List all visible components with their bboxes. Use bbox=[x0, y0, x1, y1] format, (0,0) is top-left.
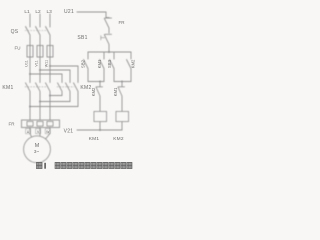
contact KM1 auxiliary NO self-latch bbox=[100, 52, 105, 82]
switch QS linkage dashed bbox=[25, 30, 46, 32]
node tap U11 bbox=[29, 73, 31, 75]
svg-text:W11: W11 bbox=[44, 60, 48, 68]
switch QS pole 3 bbox=[46, 27, 51, 46]
contact KM1 NC interlock bbox=[118, 82, 125, 112]
wire coil KM1 to bottom rail bbox=[99, 122, 101, 131]
svg-text:3~: 3~ bbox=[34, 149, 40, 154]
node tap V11 bbox=[39, 69, 41, 71]
wire merge left branch bbox=[88, 81, 104, 83]
terminal box V1 bbox=[36, 129, 41, 134]
contactor KM2 main contact 1 bbox=[58, 83, 63, 96]
caption figure number 图1 bbox=[36, 162, 42, 168]
coil KM1 bbox=[94, 112, 107, 122]
wire merge right branch bbox=[114, 81, 131, 83]
svg-text:U11: U11 bbox=[24, 60, 28, 67]
node crossover V bbox=[39, 101, 41, 103]
svg-text:SB1: SB1 bbox=[77, 35, 87, 41]
node feed junction bbox=[108, 51, 110, 53]
contact KM2 auxiliary NO self-latch bbox=[127, 52, 132, 82]
svg-text:KM1: KM1 bbox=[2, 85, 13, 91]
svg-text:KM1: KM1 bbox=[89, 136, 100, 142]
relay FR NC contact in control circuit bbox=[104, 18, 111, 33]
wire crossover KM2 pole3 to U bbox=[30, 106, 78, 108]
wire FR to motor W bbox=[46, 128, 51, 140]
node crossover W bbox=[49, 95, 51, 97]
node merge left bbox=[99, 81, 101, 83]
relay FR heater element 3 bbox=[47, 122, 53, 127]
node merge right bbox=[121, 81, 123, 83]
svg-text:KM2: KM2 bbox=[113, 136, 124, 142]
svg-text:L3: L3 bbox=[47, 9, 53, 15]
svg-text:V21: V21 bbox=[64, 129, 74, 135]
wire crossover KM2 pole2 to V bbox=[40, 101, 70, 103]
coil KM2 bbox=[116, 112, 129, 122]
contactor KM1 main contact 3 bbox=[46, 83, 51, 120]
svg-text:KM1: KM1 bbox=[97, 59, 102, 68]
contact KM2 NC interlock bbox=[96, 82, 103, 112]
relay FR heater element 1 bbox=[27, 122, 33, 127]
wire crossover KM2 pole1 to W bbox=[50, 95, 62, 97]
contactor KM1 main contact 2 bbox=[36, 83, 41, 120]
svg-text:KM1: KM1 bbox=[113, 87, 118, 96]
svg-text:KM2: KM2 bbox=[131, 59, 136, 68]
motor M circle bbox=[24, 136, 51, 163]
contactor KM2 linkage dashed bbox=[57, 86, 74, 88]
svg-text:SB2: SB2 bbox=[80, 59, 85, 68]
fuse FU1 body 3 bbox=[49, 45, 51, 57]
node bottom rail bbox=[99, 129, 101, 131]
svg-text:L1: L1 bbox=[24, 9, 30, 15]
switch QS pole 2 bbox=[36, 27, 41, 46]
wire tap W11 to KM2 pole 3 bbox=[50, 66, 78, 83]
wire V11 bbox=[39, 57, 41, 83]
contactor KM2 main contact 3 bbox=[74, 83, 79, 107]
wire FR to motor U bbox=[30, 128, 32, 138]
svg-text:U21: U21 bbox=[64, 9, 74, 15]
svg-text:L2: L2 bbox=[35, 9, 41, 15]
fuse FU1 body 2 bbox=[39, 45, 41, 57]
fuse FU1 body 1 bbox=[29, 45, 31, 57]
wire control top rail from U21 bbox=[77, 12, 109, 18]
svg-text:FR: FR bbox=[119, 20, 126, 25]
terminal box W1 bbox=[45, 129, 50, 134]
wire coil KM2 to bottom rail bbox=[121, 122, 123, 131]
svg-text:M: M bbox=[35, 143, 40, 149]
button SB3 start-reverse NO contact bbox=[110, 52, 115, 82]
wire tap V11 to KM2 pole 2 bbox=[40, 70, 70, 83]
relay FR heater element 2 bbox=[37, 122, 43, 127]
wire tap U11 to KM2 pole 1 bbox=[30, 74, 62, 83]
terminal box U1 bbox=[26, 129, 31, 134]
svg-text:KM2: KM2 bbox=[91, 87, 96, 96]
caption text 接触器联锁的正反转控制线路 bbox=[55, 162, 132, 168]
node crossover U bbox=[29, 106, 31, 108]
button SB1 plunger bbox=[101, 36, 105, 41]
switch QS pole 1 bbox=[26, 27, 31, 46]
node tap W11 bbox=[49, 65, 51, 67]
wire L2 phase column bbox=[39, 14, 41, 27]
wire L3 phase column bbox=[49, 14, 51, 27]
wire bottom rail to V21 bbox=[77, 129, 122, 131]
wire W11 bbox=[49, 57, 51, 83]
relay FR heater box bbox=[22, 120, 60, 128]
wire L1 phase column bbox=[29, 14, 31, 27]
svg-text:V11: V11 bbox=[34, 60, 38, 66]
svg-text:FR: FR bbox=[9, 122, 16, 127]
wire U11 bbox=[29, 57, 31, 83]
button SB2 start-forward NO contact bbox=[84, 52, 89, 82]
contactor KM2 main contact 2 bbox=[66, 83, 71, 102]
svg-text:FU: FU bbox=[15, 46, 21, 51]
button SB1 stop NC contact bbox=[104, 34, 111, 52]
svg-text:QS: QS bbox=[11, 29, 19, 35]
contactor KM1 linkage dashed bbox=[25, 86, 46, 88]
svg-text:SB3: SB3 bbox=[107, 59, 112, 68]
contactor KM1 main contact 1 bbox=[26, 83, 31, 120]
wire control distribution rail bbox=[88, 51, 131, 53]
wire FR to motor V bbox=[39, 128, 41, 137]
